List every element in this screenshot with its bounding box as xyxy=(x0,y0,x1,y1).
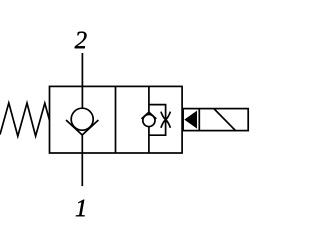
solenoid diagonal xyxy=(214,109,236,131)
valve body envelope xyxy=(50,86,183,153)
wire right chamber lower line xyxy=(148,127,150,153)
spring return xyxy=(0,103,50,136)
valve position divider xyxy=(115,86,117,153)
orifice restrictor arcs xyxy=(161,112,171,128)
label port 2 xyxy=(75,32,87,49)
check valve CV1 poppet circle xyxy=(71,108,93,130)
solenoid actuator box xyxy=(183,109,248,131)
check valve CV2 poppet circle xyxy=(143,114,155,126)
pilot triangle xyxy=(184,111,197,129)
wire bypass loop top xyxy=(149,105,166,136)
check valve CV2 seat xyxy=(142,112,157,119)
wire port 1 line xyxy=(81,135,83,186)
check valve CV1 seat xyxy=(66,120,98,135)
wire port 2 line xyxy=(81,53,83,108)
solenoid box divider xyxy=(198,109,200,131)
wire right chamber upper line xyxy=(148,86,150,112)
label port 1 xyxy=(76,200,85,217)
